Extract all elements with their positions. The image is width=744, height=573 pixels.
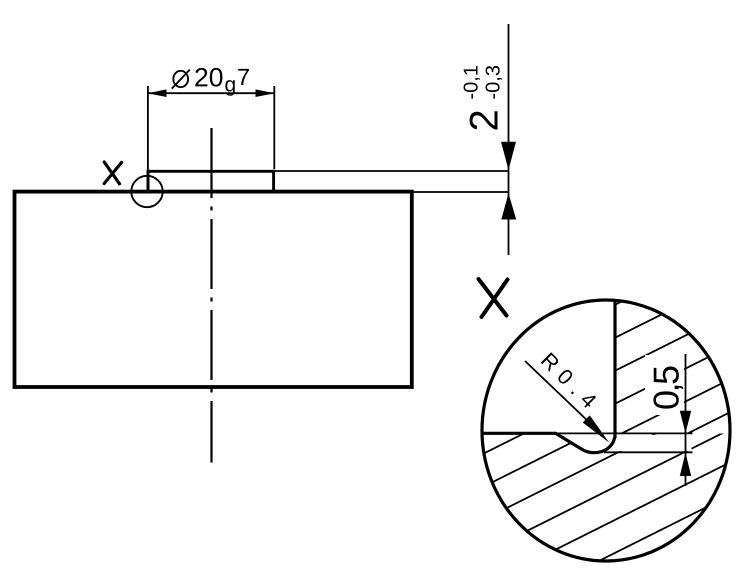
extension line body top to right xyxy=(414,191,510,193)
hatch upper region xyxy=(460,240,744,548)
text 2 (rotated) xyxy=(470,111,498,129)
label X of detail view xyxy=(479,279,508,317)
extension line right of dia20 xyxy=(273,86,275,169)
arrow down to boss top xyxy=(501,142,516,170)
extension line boss top to right xyxy=(275,170,509,172)
white clear strip for 0,5 dimension xyxy=(617,435,692,451)
detail view circle xyxy=(482,300,730,561)
extension line left of dia20 xyxy=(147,86,149,190)
leader arrow R0.4 xyxy=(583,415,609,442)
boss top edge xyxy=(147,170,276,173)
label X near boss xyxy=(104,162,121,184)
text R0.4 (rotated 45) xyxy=(541,352,598,409)
extension line groove bottom level xyxy=(604,451,693,453)
dimension line dia20 xyxy=(148,92,275,94)
diameter symbol of dia20g7 label xyxy=(172,70,190,89)
dimension line 0,5 (vertical) xyxy=(685,354,687,486)
boss right edge xyxy=(272,170,275,192)
arrow right of dia20 xyxy=(256,89,275,97)
part outline main body xyxy=(15,192,412,387)
arrow up to groove bottom level xyxy=(680,453,691,476)
tolerance -0,1 (rotated) xyxy=(464,66,481,99)
text 0,5 (rotated) xyxy=(653,366,683,408)
leader line R0.4 xyxy=(525,361,590,423)
detail marker circle X xyxy=(131,176,162,207)
white clear box for 0,5 text xyxy=(645,355,684,415)
arrow up to body top xyxy=(501,193,516,219)
boss left edge xyxy=(147,170,150,192)
dimension line 2 (vertical) xyxy=(508,24,510,255)
extension line groove top level xyxy=(550,432,693,434)
detail vertical face line xyxy=(613,299,616,438)
centerline (dash-dot) xyxy=(210,128,212,463)
hatch lower region xyxy=(460,323,744,573)
tolerance -0,3 (rotated) xyxy=(486,66,503,99)
text 20g7 xyxy=(195,68,222,87)
detail groove profile xyxy=(556,433,615,453)
arrow down to groove top level xyxy=(680,411,691,433)
detail surface line xyxy=(482,432,557,435)
arrow left of dia20 xyxy=(148,89,167,97)
